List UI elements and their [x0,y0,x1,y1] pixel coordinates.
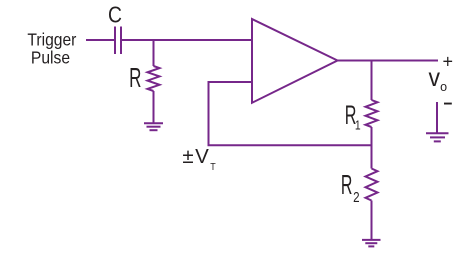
svg-text:±V: ±V [182,145,210,168]
svg-text:+: + [443,51,454,71]
ground (below R) [144,123,163,130]
svg-text:Trigger: Trigger [27,29,76,49]
resistor R [148,66,160,91]
label R2 [341,170,360,206]
svg-text:1: 1 [355,118,361,132]
capacitor C1 left plate [114,27,116,55]
wire R2 to ground [371,201,373,240]
label R1 [345,100,361,133]
svg-text:2: 2 [353,189,359,206]
wire input from trigger pulse to capacitor [86,39,114,41]
resistor R1 [366,100,378,127]
capacitor C1 right plate [120,27,122,55]
ground (output reference) [426,133,449,141]
wire output junction down to R1 [371,61,373,101]
wire R1 to node [371,127,373,169]
label - output polarity [444,103,452,105]
label v_o output voltage [429,64,448,94]
wire feedback horizontal to R1-R2 node [208,144,372,146]
svg-text:v: v [429,64,441,92]
node junction to resistor R [153,40,155,66]
wire op-amp output [338,60,439,62]
wire resistor R to ground [153,91,155,123]
resistor R2 [366,169,378,201]
svg-text:o: o [440,80,447,94]
label plus-minus V T (threshold voltage) [182,145,215,173]
ground (below R2) [362,240,381,247]
svg-text:C: C [108,3,122,28]
svg-text:R: R [341,170,353,201]
svg-text:R: R [129,62,141,93]
wire capacitor to op-amp noninverting input [122,39,252,41]
svg-text:T: T [210,161,215,173]
op-amp U1 [252,19,338,103]
wire feedback vertical [208,81,210,145]
wire output terminal minus lead [436,102,438,133]
svg-text:Pulse: Pulse [31,48,70,68]
label Trigger Pulse [27,29,76,68]
wire inverting input stub [209,81,253,83]
